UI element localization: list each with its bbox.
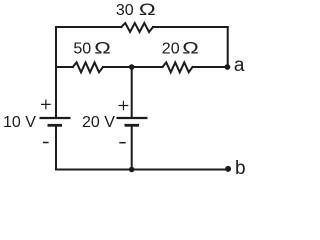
wire middle row right segment to node a [193,66,228,68]
wire top side right segment [153,26,228,28]
battery V2 20V negative plate [125,124,140,127]
svg-text:Ω: Ω [139,1,156,20]
wire middle branch upper (junction to battery V2) [131,67,133,117]
svg-text:a: a [234,55,245,76]
wire middle row center segment [103,66,163,68]
svg-text:Ω: Ω [94,39,111,58]
battery V1 10V positive plate [40,117,71,119]
wire left side lower [55,126,57,169]
svg-text:b: b [235,158,246,178]
svg-text:20 V: 20 V [82,114,115,131]
node a dot [225,64,231,70]
svg-text:30: 30 [116,2,134,19]
svg-text:50: 50 [73,41,91,58]
wire right side down to node a [227,27,229,67]
wire middle branch lower (battery V2 to bottom wire) [131,126,133,169]
svg-text:Ω: Ω [182,39,199,58]
battery V1 minus sign [43,142,49,144]
junction dot on middle row [129,64,135,70]
battery V2 20V positive plate [117,117,148,119]
wire bottom side to node b [56,169,228,171]
svg-text:10 V: 10 V [3,114,36,131]
resistor R2 50 ohm [73,62,103,72]
battery V1 plus sign [41,100,51,110]
battery V2 minus sign [119,142,125,144]
wire left side upper [55,27,57,117]
resistor R3 20 ohm [163,62,193,72]
battery V1 10V negative plate [48,124,63,127]
wire top side left segment [56,26,121,28]
svg-text:20: 20 [162,41,180,58]
battery V2 plus sign [119,101,129,111]
wire middle row left segment [56,66,73,68]
node b dot [225,166,231,172]
resistor R1 30 ohm [121,23,153,32]
junction dot on bottom wire [129,167,135,173]
